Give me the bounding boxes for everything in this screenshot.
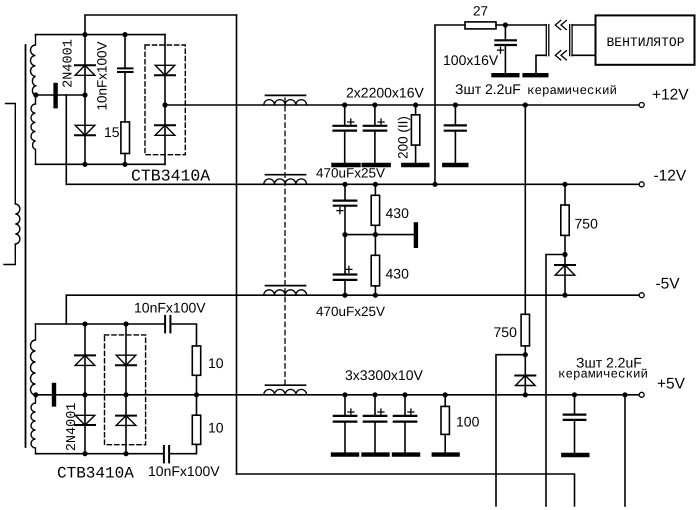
svg-text:10: 10 xyxy=(208,420,224,436)
svg-text:10nFx100V: 10nFx100V xyxy=(148,463,220,479)
diode D block1 lower (2N4001, down) xyxy=(75,125,95,135)
node xyxy=(622,392,627,397)
svg-text:2N4001: 2N4001 xyxy=(61,39,76,88)
node xyxy=(122,162,127,167)
node xyxy=(453,102,458,107)
svg-text:керамический: керамический xyxy=(558,368,648,382)
node xyxy=(342,392,347,397)
node xyxy=(82,32,87,37)
wire +12V rail xyxy=(165,104,639,106)
diode D2 (to +5V, up) xyxy=(515,376,535,386)
svg-text:Зшт 2.2uF: Зшт 2.2uF xyxy=(455,81,521,97)
wire block1 upper link (y=15) xyxy=(85,15,237,35)
capacitor C 470uF #1 (below -12V) xyxy=(344,184,346,200)
chevrons top wire xyxy=(555,20,566,29)
wire -5V rail xyxy=(66,294,639,296)
svg-text:430: 430 xyxy=(386,205,410,221)
node xyxy=(342,232,347,237)
capacitor 10nFx100V block2 top (series) xyxy=(164,316,166,333)
capacitor C 470uF #2 (above -5V) xyxy=(334,273,357,275)
plus mark xyxy=(378,409,384,415)
wire block1 top (y=34.6) xyxy=(36,34,166,36)
svg-text:-5V: -5V xyxy=(656,276,681,293)
diode bridge1 lower (up) xyxy=(155,125,175,135)
svg-text:470uFx25V: 470uFx25V xyxy=(316,304,385,319)
node xyxy=(402,392,407,397)
diode string 2N4001 block2 xyxy=(84,324,86,454)
diode bridge2 lower (up) xyxy=(116,416,136,426)
node xyxy=(562,252,567,257)
node bridge1 output xyxy=(162,102,167,107)
resistor R 430 #2 xyxy=(371,255,379,286)
node xyxy=(523,352,528,357)
svg-text:27: 27 xyxy=(473,4,488,19)
wire +5V rail xyxy=(36,394,640,396)
node xyxy=(82,451,87,456)
inductor L1 core xyxy=(266,94,306,96)
ground bar vertical xyxy=(414,224,418,245)
node xyxy=(523,392,528,397)
node xyxy=(194,392,199,397)
ground xyxy=(333,452,357,456)
bridge1 vertical wire xyxy=(164,35,166,165)
node xyxy=(432,182,437,187)
plus mark xyxy=(337,208,343,214)
node bridge2 output xyxy=(123,392,128,397)
ground xyxy=(434,452,458,456)
ground xyxy=(394,452,418,456)
plus mark xyxy=(498,47,504,53)
node xyxy=(82,392,87,397)
connector to fan: right pin pair xyxy=(569,25,571,56)
plus mark xyxy=(408,409,414,415)
terminal +12V xyxy=(639,103,644,108)
wire block1 bottom (y=164.3) xyxy=(36,163,166,165)
wire mid ground link y=234.6 xyxy=(345,234,414,236)
wire fan feed from -12V rail xyxy=(435,25,465,184)
svg-text:100: 100 xyxy=(456,414,480,430)
plus mark xyxy=(346,266,352,272)
svg-text:200 (II): 200 (II) xyxy=(395,116,410,159)
ground xyxy=(525,73,547,77)
resistor R 15 xyxy=(121,122,130,154)
resistor R 200 (II) xyxy=(415,105,417,115)
terminal -5V xyxy=(639,293,644,298)
ground xyxy=(444,163,466,167)
svg-text:+5V: +5V xyxy=(657,376,686,393)
ground bar on W2 center tap xyxy=(52,385,56,404)
svg-text:10nFx100V: 10nFx100V xyxy=(134,300,206,316)
node xyxy=(572,392,577,397)
diode bridge1 upper (down) xyxy=(155,65,175,75)
capacitor C 2200uF #1 xyxy=(344,105,346,126)
ground bar on W1 center tap xyxy=(53,85,57,106)
capacitor C 3300uF #1 xyxy=(344,395,346,416)
terminal -12V xyxy=(639,182,644,187)
ground xyxy=(403,163,427,167)
inductor L1 xyxy=(264,100,307,105)
node xyxy=(562,182,567,187)
svg-text:CTB3410A: CTB3410A xyxy=(131,167,210,186)
svg-text:15: 15 xyxy=(104,124,120,140)
svg-text:3x3300x10V: 3x3300x10V xyxy=(345,367,424,383)
node xyxy=(342,102,347,107)
wire -12V rail xyxy=(66,183,639,185)
wire block2 bottom (y=453.7) xyxy=(36,453,164,455)
wire D1 junction to x=546 drop xyxy=(546,255,565,507)
capacitor C 2200uF #2 xyxy=(374,105,376,126)
svg-text:430: 430 xyxy=(386,266,410,282)
ground xyxy=(563,453,587,457)
resistor R 750 #2 (on x=525.3) xyxy=(521,314,529,346)
svg-text:470uFx25V: 470uFx25V xyxy=(316,166,385,181)
resistor R 430 #1 xyxy=(374,184,376,195)
coupling dashed line xyxy=(284,98,286,387)
node xyxy=(342,293,347,298)
svg-text:750: 750 xyxy=(575,216,599,232)
inductor L4 xyxy=(264,389,307,394)
node xyxy=(82,92,87,97)
bridge rectifier CTB3410A block1 dashed box xyxy=(145,45,185,155)
node xyxy=(373,293,378,298)
node xyxy=(123,451,128,456)
node xyxy=(82,162,87,167)
resistor R 10 upper xyxy=(192,346,200,375)
diode D1 (to -5V, up) xyxy=(555,265,575,275)
node xyxy=(373,182,378,187)
svg-text:-12V: -12V xyxy=(654,168,687,185)
resistor R 10 lower xyxy=(196,395,198,415)
wire connector to fan bottom / ground xyxy=(572,54,595,56)
resistor R 750 #1 (from -12V) xyxy=(564,184,566,205)
winding W2 (lower secondary) xyxy=(31,324,36,454)
wire x=525.3 from +12V down to 750 lower xyxy=(524,105,526,314)
plus mark xyxy=(378,119,384,125)
capacitor 10nFx100V block2 bottom (series) xyxy=(163,446,165,462)
svg-text:10: 10 xyxy=(208,355,224,371)
wire main left bus x=236.5 xyxy=(236,15,238,474)
node xyxy=(523,102,528,107)
wire D2 junction to x=496 drop xyxy=(496,355,525,506)
capacitor C 100x16V xyxy=(504,25,506,40)
node xyxy=(342,182,347,187)
capacitor C ceramic 2.2uF (+12V) xyxy=(454,105,456,125)
svg-text:ВЕНТИЛЯТОР: ВЕНТИЛЯТОР xyxy=(607,35,685,50)
wire block2 top (y=324) left part xyxy=(36,323,166,325)
diode bridge2 upper (down) xyxy=(116,355,136,365)
node xyxy=(123,321,128,326)
winding W1 (upper secondary) xyxy=(30,35,35,165)
chevrons bottom wire xyxy=(555,51,566,60)
inductor L3 xyxy=(264,290,307,295)
node xyxy=(372,392,377,397)
resistor R 27 xyxy=(465,22,496,29)
bridge2 vertical wire xyxy=(125,324,127,454)
svg-text:750: 750 xyxy=(494,324,518,340)
connector to fan: left pin pair xyxy=(545,25,547,56)
svg-text:керамический: керамический xyxy=(527,84,617,98)
bridge rectifier CTB3410A block2 dashed box xyxy=(105,335,146,445)
capacitor C 3300uF #3 xyxy=(404,395,406,416)
node: W2 center tap xyxy=(33,392,38,397)
node xyxy=(372,102,377,107)
inductor L4 core xyxy=(266,384,306,386)
node xyxy=(373,232,378,237)
winding W3 (primary) xyxy=(4,104,20,265)
capacitor C 3300uF #2 xyxy=(374,395,376,416)
transformer T1 core xyxy=(25,45,27,447)
plus mark xyxy=(348,409,354,415)
svg-text:2x2200x16V: 2x2200x16V xyxy=(346,85,425,101)
svg-text:2N4001: 2N4001 xyxy=(65,403,80,452)
inductor L2 core xyxy=(266,174,306,176)
node xyxy=(443,392,448,397)
wire +5V drop right x=625 xyxy=(624,395,626,506)
diode D block2 upper (2N4001, up) xyxy=(75,355,95,365)
node xyxy=(562,293,567,298)
node xyxy=(122,32,127,37)
wire bottom bus xyxy=(237,474,575,506)
capacitor C ceramic 2.2uF (+5V) xyxy=(574,395,576,415)
terminal +5V xyxy=(639,392,644,397)
wire W1 center tap to diode junction xyxy=(36,94,85,96)
svg-text:100x16V: 100x16V xyxy=(443,52,499,68)
snubber capacitor 10nFx100V block1 xyxy=(124,35,126,69)
wire connector to fan top xyxy=(572,24,595,26)
node xyxy=(503,22,508,27)
ground xyxy=(364,452,388,456)
ground xyxy=(364,163,389,167)
diode string 2N4001 block1 xyxy=(84,35,86,165)
svg-text:10nFx100V: 10nFx100V xyxy=(94,41,109,110)
plus mark xyxy=(348,119,354,125)
node xyxy=(413,102,418,107)
svg-text:+12V: +12V xyxy=(652,87,689,104)
wire -5V branch from x=66.3 down to block2 top xyxy=(65,295,67,324)
ground xyxy=(494,73,518,77)
inductor L3 core xyxy=(266,285,306,287)
resistor R 100 xyxy=(444,395,446,407)
svg-text:CTB3410A: CTB3410A xyxy=(57,465,134,483)
node: W1 center tap xyxy=(33,92,38,97)
fan box xyxy=(596,15,695,64)
inductor L2 xyxy=(264,179,307,184)
wire block1 tap branch x=66.3 down to -12V rail xyxy=(65,95,67,184)
diode D block2 lower (2N4001, down) xyxy=(75,415,95,425)
ground xyxy=(334,163,359,167)
wire block2 top right part to resistor xyxy=(170,324,196,346)
diode D block1 upper (2N4001, up) xyxy=(75,65,95,75)
node xyxy=(82,321,87,326)
